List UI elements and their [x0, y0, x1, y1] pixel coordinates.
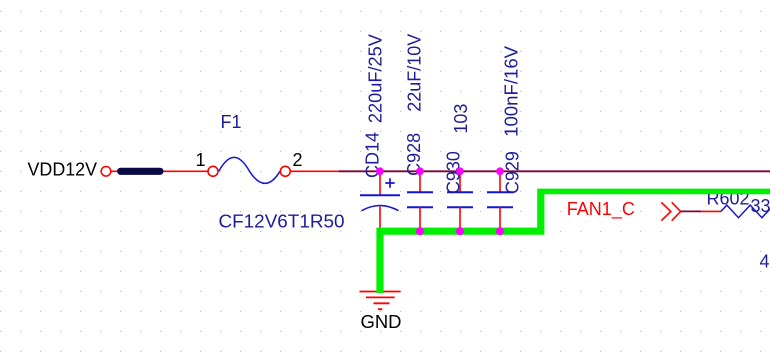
off-sheet connector chevrons [661, 202, 680, 220]
wire [111, 170, 117, 172]
svg-text:FAN1_C: FAN1_C [567, 199, 635, 220]
capacitor CD14 bottom lead [379, 207, 381, 230]
svg-text:F1: F1 [221, 112, 242, 132]
svg-text:CF12V6T1R50: CF12V6T1R50 [219, 212, 345, 232]
wire main net [339, 170, 770, 172]
capacitor C929 bottom lead [499, 207, 501, 231]
wire FAN1_C net [681, 210, 702, 212]
svg-text:2: 2 [293, 150, 303, 170]
capacitor CD14 top plate [360, 194, 400, 196]
wire FAN1 net (thick green top) [537, 189, 770, 195]
power port circle [101, 167, 111, 177]
svg-text:1: 1 [196, 150, 206, 170]
ground symbol [360, 292, 401, 310]
capacitor CD14 top lead [379, 171, 381, 195]
fuse F1 pin 2 circle [280, 166, 290, 176]
svg-text:22uF/10V: 22uF/10V [405, 34, 425, 112]
capacitor CD14 curved plate [362, 206, 399, 211]
capacitor C930 plates [447, 192, 473, 207]
fuse F1 body (sine curve) [219, 157, 280, 183]
junction dots on main wire [376, 167, 384, 175]
fuse F1 pin 1 circle [208, 166, 218, 176]
capacitor CD14 plus sign [385, 178, 394, 187]
junction dots on ground bus [416, 227, 424, 235]
wire [291, 170, 340, 172]
capacitor C928 top lead [419, 171, 421, 192]
capacitor C930 bottom lead [459, 207, 461, 231]
svg-text:4: 4 [760, 252, 770, 272]
capacitor C928 plates [407, 192, 433, 207]
svg-text:C929: C929 [502, 151, 522, 194]
wire [164, 170, 208, 172]
capacitor C929 plates [487, 192, 513, 207]
resistor R602 left lead [701, 210, 721, 212]
svg-text:220uF/25V: 220uF/25V [366, 34, 386, 123]
capacitor C929 top lead [499, 171, 501, 192]
wide wire segment (thick bar) [121, 168, 160, 175]
svg-text:GND: GND [361, 312, 402, 332]
svg-text:103: 103 [451, 104, 471, 134]
capacitor C928 bottom lead [419, 207, 421, 231]
wire GND net (thick green) [380, 194, 541, 293]
capacitor C930 top lead [459, 171, 461, 192]
svg-text:VDD12V: VDD12V [28, 160, 98, 180]
resistor R602 body (zigzag) [721, 205, 770, 218]
svg-text:100nF/16V: 100nF/16V [502, 46, 522, 137]
svg-text:33: 33 [751, 196, 770, 216]
